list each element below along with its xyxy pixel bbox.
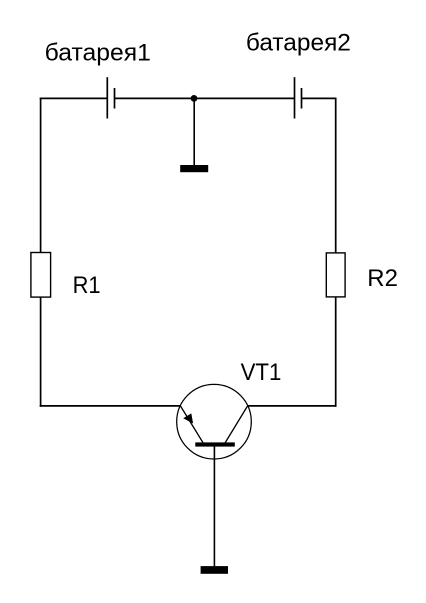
ground G2 bar [201, 566, 228, 574]
battery B1 long plate [106, 77, 108, 118]
wire top-right segment (B2 to right rail corner) [302, 97, 337, 99]
svg-text:батарея2: батарея2 [246, 29, 351, 56]
svg-text:R1: R1 [73, 272, 101, 299]
svg-text:R2: R2 [367, 265, 398, 292]
svg-text:батарея1: батарея1 [45, 39, 151, 66]
resistor R1 [31, 253, 51, 298]
battery B2 short plate [301, 88, 303, 109]
transistor VT1 right diagonal (collector) [225, 406, 248, 443]
resistor R2 [326, 253, 345, 297]
ground G1 bar [180, 165, 208, 172]
wire emitter to ground G2 [213, 446, 215, 567]
battery B1 short plate [114, 88, 116, 109]
junction node dot [191, 95, 198, 102]
wire bottom-left (corner to transistor circle) [40, 405, 181, 407]
battery B2 long plate [294, 77, 296, 118]
wire junction to ground G1 [193, 98, 195, 165]
wire right rail upper (corner to R2 top) [335, 98, 337, 253]
svg-text:VT1: VT1 [241, 359, 282, 386]
transistor VT1 arrow [183, 413, 193, 423]
transistor VT1 base bar [195, 442, 235, 446]
transistor VT1 left diagonal (emitter) [180, 406, 203, 443]
wire top-middle segment (B1 to B2 through junction) [115, 97, 295, 99]
wire left rail upper (corner to R1 top) [40, 98, 42, 252]
wire left rail lower (R1 bottom to bottom-left corner) [40, 298, 42, 407]
wire bottom-right (transistor circle to corner) [248, 405, 337, 407]
wire top-left segment (left rail corner to battery B1 plate) [40, 97, 108, 99]
transistor VT1 circle [177, 384, 252, 459]
wire right rail lower (R2 bottom to bottom-right corner) [335, 297, 337, 407]
